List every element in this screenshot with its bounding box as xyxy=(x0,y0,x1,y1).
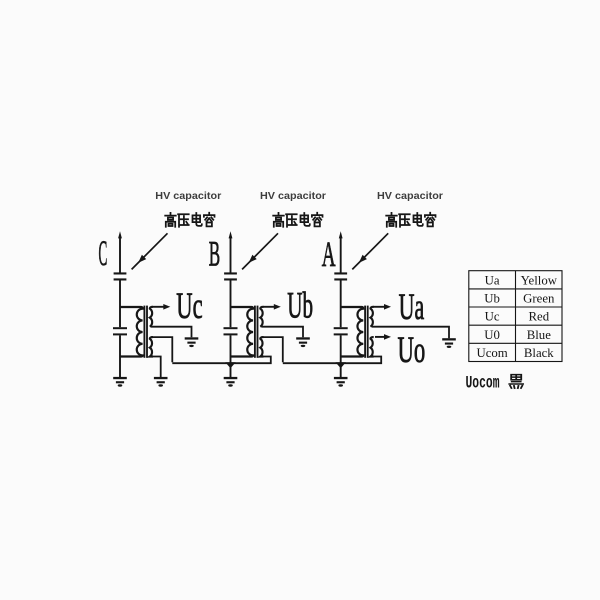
wire: Ua winding return (phase A) xyxy=(372,327,449,339)
callout arrow to HV capacitor (phase C) xyxy=(132,233,168,269)
svg-text:B: B xyxy=(209,233,220,273)
wire: Ub winding return (phase B) xyxy=(262,327,304,338)
wire: residual winding B start to bus xyxy=(262,337,283,362)
svg-text:Red: Red xyxy=(528,310,549,324)
HV capacitor (phase A) xyxy=(334,272,347,280)
transformer TB secondary winding 2 xyxy=(260,337,263,356)
wire: residual winding C end to ground xyxy=(151,357,161,378)
svg-text:Uo: Uo xyxy=(398,330,426,371)
ground (Uc return) xyxy=(185,337,199,347)
transformer TA primary winding xyxy=(341,307,364,357)
wire: HV capacitor to divider capacitor (phase B) xyxy=(230,280,232,327)
wire: residual winding C start to bus xyxy=(151,337,172,362)
ground (phase B main) xyxy=(224,377,238,387)
transformer TB core xyxy=(255,306,258,358)
svg-text:Black: Black xyxy=(524,346,554,360)
label: gao-ya-dian-rong (phase A) xyxy=(386,213,435,227)
svg-text:HV capacitor: HV capacitor xyxy=(155,190,221,202)
legend table xyxy=(469,271,562,362)
arrow: Uo residual output xyxy=(375,334,391,340)
svg-text:HV capacitor: HV capacitor xyxy=(260,190,326,202)
label: hei (black) xyxy=(509,375,523,389)
svg-text:Blue: Blue xyxy=(527,328,551,342)
svg-text:Ucom: Ucom xyxy=(476,346,507,360)
ground (Ua return) xyxy=(442,338,456,348)
transformer TA secondary winding 1 xyxy=(371,307,374,327)
transformer TC secondary winding 2 xyxy=(150,337,153,356)
transformer TC secondary winding 1 xyxy=(150,307,153,327)
label: gao-ya-dian-rong (phase B) xyxy=(273,213,322,227)
junction: bus at phase A ground wire xyxy=(336,362,346,368)
label: gao-ya-dian-rong (phase C) xyxy=(165,213,214,227)
divider capacitor (phase C) xyxy=(113,327,127,335)
svg-text:Ub: Ub xyxy=(484,292,500,306)
callout arrow to HV capacitor (phase B) xyxy=(242,233,278,269)
svg-text:Ua: Ua xyxy=(399,287,425,328)
divider capacitor (phase A) xyxy=(334,327,348,335)
transformer TC primary winding xyxy=(120,307,143,357)
wire: divider capacitor to ground (phase A) xyxy=(340,335,342,377)
callout arrow to HV capacitor (phase A) xyxy=(352,233,388,269)
wire: residual bus segment B-A xyxy=(283,357,381,364)
ground (Ub return) xyxy=(296,337,310,347)
transformer TB secondary winding 1 xyxy=(260,307,263,327)
wire: divider capacitor to ground (phase B) xyxy=(230,335,232,377)
wire: phase B input lead xyxy=(229,231,233,272)
transformer TA core xyxy=(365,306,368,358)
wire: HV capacitor to divider capacitor (phase A) xyxy=(340,280,342,327)
svg-text:Yellow: Yellow xyxy=(521,273,558,287)
svg-text:C: C xyxy=(99,233,108,273)
wire: divider capacitor to ground (phase C) xyxy=(119,335,121,377)
HV capacitor (phase C) xyxy=(114,272,127,280)
svg-text:HV capacitor: HV capacitor xyxy=(377,190,443,202)
svg-text:Uc: Uc xyxy=(176,286,202,327)
junction: bus at phase B ground wire xyxy=(225,362,235,368)
transformer TC core xyxy=(144,306,147,358)
ground (phase C main) xyxy=(113,377,127,387)
arrow: Ua output (phase A) xyxy=(373,304,391,310)
svg-text:Green: Green xyxy=(523,292,555,306)
svg-text:Ua: Ua xyxy=(485,273,500,287)
svg-text:A: A xyxy=(322,234,336,274)
svg-text:U0: U0 xyxy=(484,328,500,342)
wire: residual bus segment C-B xyxy=(172,357,270,364)
ground (phase A main) xyxy=(334,377,348,387)
svg-text:Uocom: Uocom xyxy=(466,373,500,393)
transformer TB primary winding xyxy=(231,307,254,357)
wire: Uc winding return (phase C) xyxy=(151,327,192,338)
svg-text:Uc: Uc xyxy=(485,310,500,324)
svg-text:Ub: Ub xyxy=(287,286,313,327)
wire: phase C input lead xyxy=(118,231,122,272)
transformer TA secondary winding 2 xyxy=(371,337,374,356)
wire: HV capacitor to divider capacitor (phase C) xyxy=(119,280,121,327)
wire: phase A input lead xyxy=(339,231,343,272)
arrow: Uc output (phase C) xyxy=(152,304,170,310)
divider capacitor (phase B) xyxy=(224,327,238,335)
ground (phase C residual winding) xyxy=(154,377,168,387)
arrow: Ub output (phase B) xyxy=(263,304,281,310)
HV capacitor (phase B) xyxy=(224,272,237,280)
